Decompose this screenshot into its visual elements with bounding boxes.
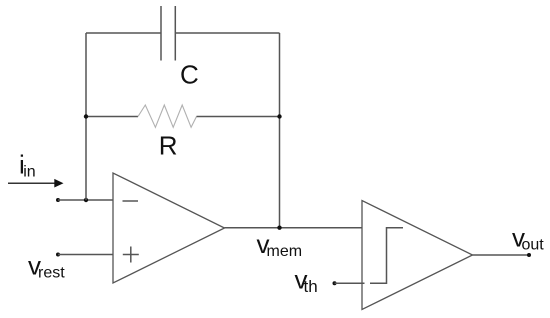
svg-text:C: C <box>180 59 199 89</box>
svg-text:th: th <box>304 277 318 296</box>
node: v_mem junction dot <box>277 226 281 230</box>
wire: resistor branch left segment <box>86 116 138 118</box>
wire: comparator output wire <box>473 254 530 256</box>
wire: non-inverting input wire (v_rest) <box>58 254 113 256</box>
node: v_out terminal dot <box>527 253 531 257</box>
wire: v_th input wire <box>335 282 365 284</box>
svg-text:mem: mem <box>267 243 303 260</box>
svg-text:in: in <box>23 164 35 181</box>
op-amp U1 triangle <box>113 173 225 283</box>
wire: top branch right segment from capacitor <box>175 32 279 34</box>
comparator threshold step symbol <box>370 228 403 284</box>
comparator U2 triangle <box>362 201 473 310</box>
op-amp U1 plus sign <box>123 254 139 256</box>
wire: top branch left segment to capacitor <box>86 32 161 34</box>
wire: right vertical feedback wire <box>279 33 281 228</box>
wire: inverting input wire <box>58 199 113 201</box>
node: left junction of resistor branch <box>84 114 88 118</box>
wire: left vertical feedback wire <box>85 33 87 200</box>
wire: op-amp output wire (v_mem) <box>225 227 363 229</box>
arrowhead of i_in <box>54 179 63 188</box>
svg-text:out: out <box>522 237 545 254</box>
svg-text:R: R <box>159 130 178 160</box>
op-amp U1 minus sign <box>123 200 139 202</box>
node: right junction of resistor branch <box>277 114 281 118</box>
node: inverting input terminal dot <box>56 198 60 202</box>
svg-text:rest: rest <box>38 265 65 282</box>
wire: i_in input arrow line <box>8 182 55 184</box>
node: v_rest terminal dot <box>56 253 60 257</box>
capacitor C <box>160 6 162 61</box>
node: feedback junction at inverting input <box>84 198 88 202</box>
wire: resistor branch right segment <box>197 116 280 118</box>
node: v_th terminal dot <box>333 281 337 285</box>
resistor R zigzag <box>138 105 197 127</box>
